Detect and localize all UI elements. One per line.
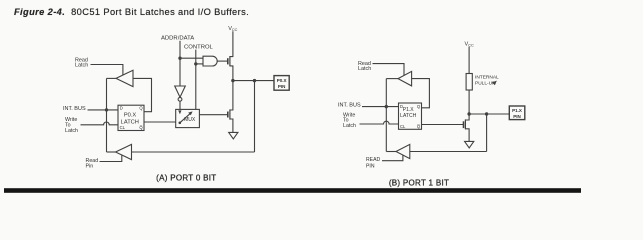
wire: Q2 source to ground (A): [230, 119, 233, 132]
wire: AND output to Q1 gate (A): [217, 60, 227, 62]
svg-text:Q̅: Q̅: [139, 125, 143, 130]
svg-text:READ: READ: [366, 157, 380, 163]
svg-text:Latch: Latch: [65, 128, 78, 134]
wire: read-latch input from latch Q (A): [133, 78, 152, 111]
junction: pin drop at node (A): [253, 79, 256, 82]
junction: ADDR/DATA to AND branch (A): [178, 57, 181, 60]
mux switch symbol (A): [178, 110, 181, 114]
svg-text:PIN: PIN: [278, 84, 286, 89]
wire: VCC to pull-up resistor (B): [468, 47, 470, 74]
wire: read-pin enable (B): [382, 155, 403, 161]
svg-text:CONTROL: CONTROL: [184, 45, 214, 51]
svg-text:Q: Q: [139, 106, 143, 111]
svg-text:D: D: [120, 106, 123, 111]
wire: Q2 drain to pin node (A): [230, 81, 233, 110]
wire: read-pin enable (A): [100, 155, 122, 161]
wire: pin node to P0.X PIN box (A): [233, 80, 274, 82]
label: INTERNAL PULL-UP (B): [475, 75, 499, 87]
svg-text:INT. BUS: INT. BUS: [338, 103, 361, 109]
wire: read-pin buffer input line (A): [132, 151, 255, 153]
ground (B): [465, 141, 474, 148]
label: Read Pin (A): [86, 158, 99, 170]
svg-text:P0.X: P0.X: [277, 78, 287, 83]
label: Write To Latch (B): [343, 112, 356, 128]
svg-text:Q̅: Q̅: [417, 124, 421, 129]
svg-text:VCC: VCC: [465, 41, 474, 47]
svg-text:(A) PORT 0 BIT: (A) PORT 0 BIT: [156, 173, 216, 182]
junction: pin drop at node (B): [485, 112, 488, 115]
power VCC (B): [465, 41, 474, 47]
resistor internal pull-up R1 (B): [466, 74, 472, 91]
wire: VCC to Q1 drain (A): [230, 31, 233, 56]
wire: pin node down to read-pin buffer (B): [486, 114, 488, 152]
wire: read-pin output to read line (A): [107, 151, 116, 153]
power VCC (A): [228, 26, 237, 32]
arrow: pull-up pointer (B): [492, 81, 497, 86]
wire: latch Qbar to Q3 gate (B): [422, 124, 464, 126]
svg-text:INTERNAL: INTERNAL: [475, 75, 499, 81]
latch P1.X (B): [399, 103, 422, 129]
wire: CONTROL branch to AND input (A): [196, 63, 203, 65]
ground (A): [229, 132, 238, 139]
wire: read-latch output to INT.BUS (A): [107, 77, 117, 79]
label: READ PIN (B): [366, 157, 380, 169]
svg-text:PIN: PIN: [513, 114, 521, 119]
mux MUX (A): [176, 109, 200, 127]
svg-text:CL: CL: [400, 124, 406, 129]
svg-text:(B) PORT 1 BIT: (B) PORT 1 BIT: [389, 178, 449, 187]
label: Write To Latch (A): [65, 117, 78, 134]
transistor Q1 pullup FET (A): [227, 58, 229, 64]
wire: write-to-latch to CL with jump over read line (B): [360, 121, 399, 124]
transistor Q3 output FET (B): [463, 121, 465, 128]
wire: pin node line to P1.X PIN box (B): [469, 113, 509, 115]
wire: resistor to Q3 drain (B): [465, 90, 469, 120]
label: Read Latch (A): [75, 57, 88, 68]
buffer: read-latch tri-state U5 (B): [398, 71, 412, 86]
pin box P1.X PIN (B): [509, 106, 525, 120]
wire: INT.BUS to latch D (A): [88, 109, 119, 111]
wire: read-latch input from latch Q (B): [412, 79, 430, 108]
svg-text:INT. BUS: INT. BUS: [63, 106, 86, 112]
label: Read Latch (B): [358, 61, 371, 72]
bottom rule: [4, 188, 581, 193]
wire: read-pin output to read line (B): [386, 151, 396, 153]
pin box P0.X PIN (A): [274, 76, 289, 91]
wire: read-latch enable (B): [373, 64, 405, 76]
svg-text:MUX: MUX: [184, 117, 196, 123]
junction: INT.BUS / read line (A): [105, 108, 108, 111]
svg-text:CL: CL: [120, 125, 126, 130]
latch P0.X (A): [118, 105, 144, 130]
transistor Q2 pulldown FET (A): [227, 112, 229, 118]
wire: MUX output to Q2 gate (A): [199, 114, 227, 116]
svg-text:Q: Q: [417, 104, 421, 109]
svg-text:Latch: Latch: [75, 62, 88, 68]
svg-text:P0.X: P0.X: [124, 113, 137, 119]
wire: write-to-latch to CL with jump over read line (A): [81, 122, 119, 125]
wire: CONTROL vertical to MUX select (A): [195, 50, 197, 110]
svg-text:Latch: Latch: [343, 123, 356, 129]
junction: Q1 source at node (A): [231, 79, 234, 82]
buffer: read-pin tri-state U6 (B): [396, 144, 410, 158]
svg-text:Pin: Pin: [86, 164, 94, 170]
and-gate U3 (A): [203, 56, 217, 66]
wire: Q3 source to ground (B): [465, 129, 469, 142]
figure title: [14, 7, 249, 17]
svg-text:PULL-UP: PULL-UP: [475, 81, 495, 87]
wire: Q1 source to pin node (A): [230, 66, 233, 81]
svg-text:VCC: VCC: [228, 26, 237, 32]
svg-text:Latch: Latch: [358, 66, 371, 72]
buffer: read-pin tri-state U2 (A): [116, 144, 132, 159]
junction: INT.BUS / read line (B): [385, 105, 388, 108]
svg-text:PIN: PIN: [366, 163, 375, 169]
wire: pin node down to read-pin buffer (A): [254, 81, 256, 152]
wire: latch Qbar to MUX input (A): [144, 121, 176, 123]
junction: resistor / node (B): [467, 112, 470, 115]
wire: read-latch output to INT.BUS (B): [386, 78, 398, 80]
svg-text:LATCH: LATCH: [400, 113, 416, 119]
buffer: read-latch tri-state U1 (A): [116, 70, 133, 86]
wire: ADDR/DATA branch to AND input (A): [180, 57, 203, 59]
wire: internal bus vertical read line (A): [106, 78, 108, 152]
junction: CONTROL to AND branch (A): [194, 62, 197, 65]
inverter U4 (A): [175, 86, 186, 97]
wire: read-pin buffer input line (B): [410, 151, 487, 153]
wire: read-latch enable (A): [91, 65, 123, 76]
svg-text:D: D: [400, 104, 403, 109]
svg-text:ADDR/DATA: ADDR/DATA: [161, 35, 194, 41]
wire: internal bus vertical read line (B): [385, 79, 387, 152]
wire: ADDR/DATA vertical to inverter (A): [179, 41, 181, 86]
wire: inverter output to MUX (A): [179, 101, 181, 109]
svg-text:P1.X: P1.X: [512, 108, 522, 113]
wire: INT.BUS to latch D (B): [362, 106, 399, 108]
